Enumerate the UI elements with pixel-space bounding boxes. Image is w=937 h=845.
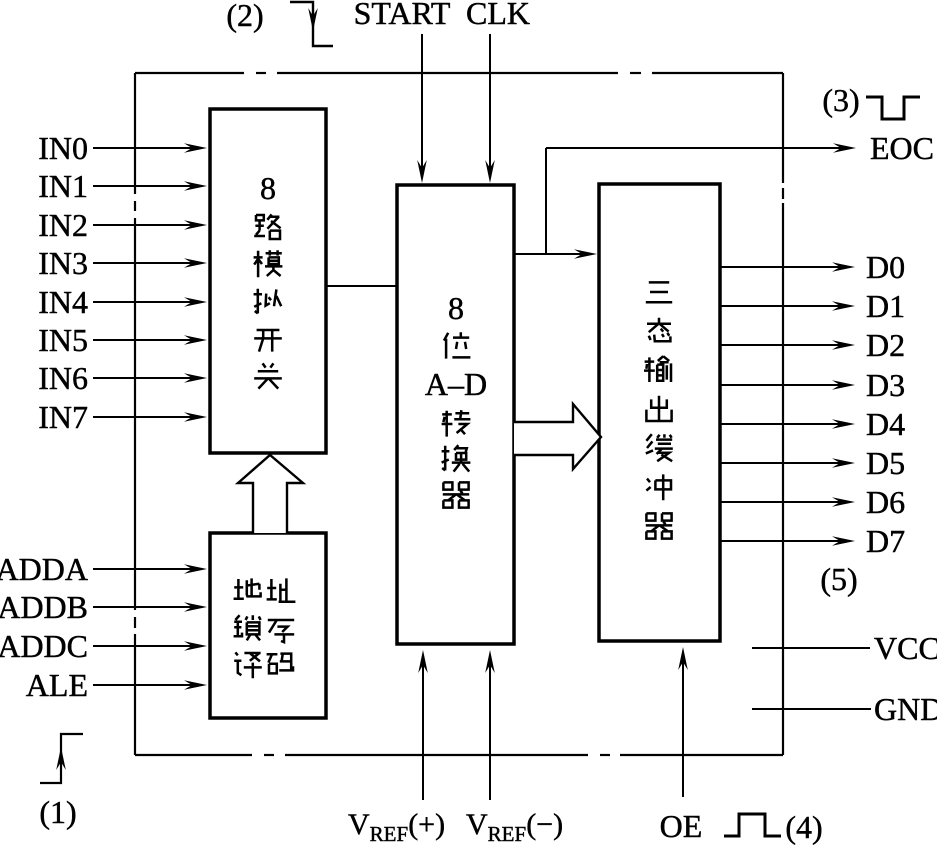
waveform symbol (2) falling edge (226, 0, 333, 46)
block: 8-way analog switch (8路模拟开关) (210, 109, 326, 453)
svg-text:D2: D2 (866, 327, 905, 363)
block: tri-state output buffer (三态输出缓冲器) (599, 184, 720, 641)
svg-text:D6: D6 (866, 484, 905, 520)
input IN1 wire+arrow (38, 168, 207, 204)
input OE wire+arrow+label (660, 647, 703, 844)
svg-text:A–D: A–D (425, 366, 487, 402)
input IN7 wire+arrow (38, 399, 207, 435)
output D5 wire+arrow (720, 445, 905, 481)
svg-text:D0: D0 (866, 249, 905, 285)
waveform symbol (3) negative pulse (822, 82, 920, 119)
output EOC wire+arrow+label (546, 130, 934, 166)
svg-text:START: START (354, 0, 451, 31)
chip boundary U1 (ADC0809) dash-dot border (135, 73, 783, 755)
svg-text:D5: D5 (866, 445, 905, 481)
svg-text:(4): (4) (785, 809, 822, 845)
output D4 wire+arrow (720, 406, 905, 442)
output D1 wire+arrow (720, 288, 905, 324)
svg-text:ALE: ALE (26, 667, 88, 703)
wire: ADC status to buffer (with arrow) (514, 249, 597, 259)
hollow bus arrow: address decoder to analog switch (238, 455, 303, 533)
input VREF(+) wire+arrow+label (348, 650, 445, 845)
input CLK label+wire+arrow (466, 0, 530, 183)
pin GND wire+label (752, 691, 937, 727)
output D3 wire+arrow (720, 367, 905, 403)
svg-text:VCC: VCC (874, 630, 937, 666)
svg-text:OE: OE (660, 808, 703, 844)
svg-text:GND: GND (874, 691, 937, 727)
waveform symbol (1) rising edge (39, 734, 83, 830)
svg-text:ADDB: ADDB (0, 589, 88, 625)
svg-text:(3): (3) (822, 82, 859, 118)
input ADDB wire+arrow (0, 589, 207, 625)
svg-text:IN3: IN3 (38, 245, 88, 281)
input IN4 wire+arrow (38, 284, 207, 320)
input START label+wire+arrow (354, 0, 451, 183)
block: 8-bit A-D converter (8位A-D转换器) (397, 185, 514, 644)
input VREF(-) wire+arrow+label (466, 650, 563, 845)
input IN5 wire+arrow (38, 322, 207, 358)
svg-text:8: 8 (448, 290, 464, 326)
output D0 wire+arrow (720, 249, 905, 285)
svg-text:(5): (5) (820, 561, 857, 597)
input IN0 wire+arrow (38, 130, 207, 166)
input IN2 wire+arrow (38, 207, 207, 243)
wire: analog switch output to ADC input (326, 285, 397, 287)
svg-text:(2): (2) (226, 0, 263, 33)
svg-text:IN5: IN5 (38, 322, 88, 358)
output D6 wire+arrow (720, 484, 905, 520)
svg-text:EOC: EOC (870, 130, 934, 166)
svg-text:D1: D1 (866, 288, 905, 324)
input IN6 wire+arrow (38, 360, 207, 396)
output D2 wire+arrow (720, 327, 905, 363)
input IN3 wire+arrow (38, 245, 207, 281)
input ADDA wire+arrow (0, 551, 207, 587)
hollow bus arrow: ADC to tri-state buffer (514, 404, 601, 469)
block: address latch and decoder (地址锁存译码) (210, 533, 326, 718)
svg-text:IN1: IN1 (38, 168, 88, 204)
svg-text:(1): (1) (39, 794, 76, 830)
svg-text:ADDA: ADDA (0, 551, 88, 587)
svg-text:8: 8 (260, 170, 276, 206)
svg-text:D3: D3 (866, 367, 905, 403)
svg-text:D7: D7 (866, 523, 905, 559)
output D7 wire+arrow (720, 523, 905, 559)
waveform symbol (4) positive pulse (724, 809, 823, 845)
svg-text:ADDC: ADDC (0, 628, 88, 664)
svg-text:IN7: IN7 (38, 399, 88, 435)
svg-text:IN2: IN2 (38, 207, 88, 243)
svg-text:IN6: IN6 (38, 360, 88, 396)
svg-text:IN0: IN0 (38, 130, 88, 166)
pin VCC wire+label (752, 630, 937, 666)
wire: EOC riser (545, 148, 547, 254)
svg-text:CLK: CLK (466, 0, 530, 31)
svg-text:IN4: IN4 (38, 284, 88, 320)
svg-text:D4: D4 (866, 406, 905, 442)
input ADDC wire+arrow (0, 628, 207, 664)
input ALE wire+arrow (26, 667, 207, 703)
